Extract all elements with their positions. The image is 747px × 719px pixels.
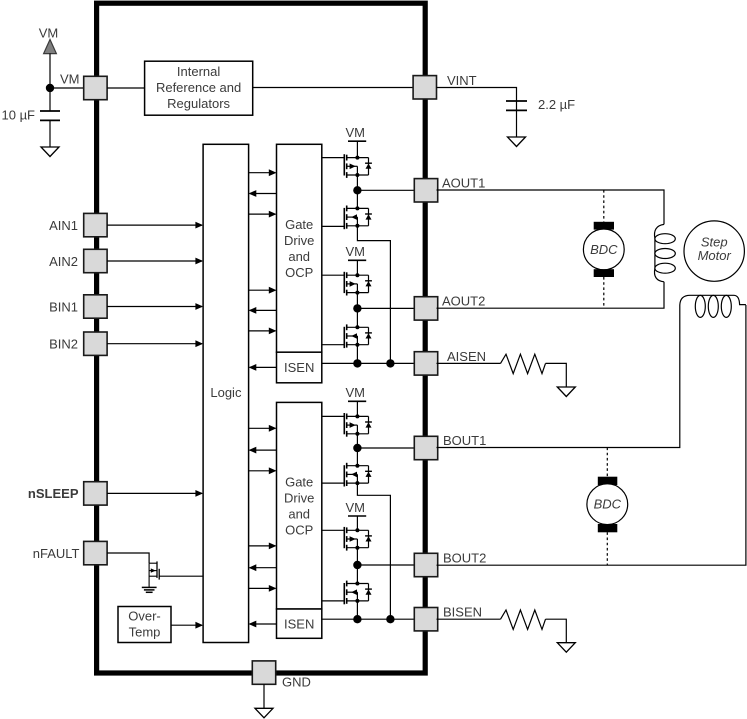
svg-text:Internal: Internal xyxy=(177,64,220,79)
node VM junction dot xyxy=(46,84,54,92)
svg-text:AIN1: AIN1 xyxy=(49,218,78,233)
power rail VM B1 bar xyxy=(348,400,366,402)
wire VM supply vertical xyxy=(49,54,51,111)
svg-text:VM: VM xyxy=(345,385,365,400)
svg-text:BIN2: BIN2 xyxy=(49,337,78,352)
transistor Q2 low-side A1 xyxy=(344,206,372,230)
svg-text:Drive: Drive xyxy=(284,233,314,248)
wire BDC B dashed top xyxy=(606,448,608,477)
wire AOUT1 node to pin xyxy=(357,189,414,191)
svg-text:VM: VM xyxy=(39,26,59,41)
wire BOUT1 to winding B xyxy=(437,305,680,448)
motor BDC A xyxy=(583,222,624,277)
wire ISENA to Logic arrow xyxy=(249,364,277,371)
wire AOUT1 node to Q2 drain xyxy=(356,190,358,208)
wire Q7 source to BOUT2 node xyxy=(356,548,358,565)
svg-text:Over-: Over- xyxy=(128,608,161,623)
wire BIN2 to Logic xyxy=(107,340,203,347)
resistor R1 AISEN sense xyxy=(501,354,546,373)
pin BOUT2 xyxy=(414,553,437,576)
wire Over-Temp to Logic xyxy=(171,622,203,629)
node BISEN dot 1 xyxy=(353,615,361,623)
pin AISEN xyxy=(414,352,437,375)
resistor R2 BISEN sense xyxy=(501,610,546,629)
wire GateDriveB to Q7 gate xyxy=(322,529,345,531)
inductor L2 step motor winding B xyxy=(680,295,746,317)
wire regulator box to VINT pin xyxy=(253,87,415,89)
pin GND xyxy=(252,661,275,684)
block Gate Drive and OCP B xyxy=(277,402,322,609)
svg-text:BISEN: BISEN xyxy=(443,605,482,620)
pin AOUT1 xyxy=(414,179,437,202)
svg-text:BDC: BDC xyxy=(594,497,622,512)
motor Step Motor xyxy=(684,221,744,281)
svg-text:10 µF: 10 µF xyxy=(2,108,36,123)
wire Logic to GateDriveA arrow 3 xyxy=(249,211,277,218)
block Logic xyxy=(203,144,249,642)
wire GateDriveA to Logic arrow 5 xyxy=(249,307,277,314)
wire AOUT2 to motor loop xyxy=(437,282,665,308)
svg-text:BOUT1: BOUT1 xyxy=(443,433,486,448)
wire AOUT2 node to pin xyxy=(357,307,414,309)
pin BIN1 xyxy=(84,295,107,318)
wire BOUT2 node to Q8 drain xyxy=(356,565,358,584)
svg-text:OCP: OCP xyxy=(285,522,313,537)
pin AIN2 xyxy=(84,249,107,272)
svg-text:AOUT2: AOUT2 xyxy=(442,293,485,308)
wire BIN1 to Logic xyxy=(107,303,203,310)
pin VM xyxy=(84,76,107,99)
pin nFAULT xyxy=(84,541,107,564)
ground below GND pin xyxy=(255,708,273,718)
wire AIN1 to Logic xyxy=(107,222,203,229)
svg-text:VM: VM xyxy=(345,244,365,259)
svg-text:AOUT1: AOUT1 xyxy=(442,175,485,190)
wire BDC B dashed bottom xyxy=(606,532,608,565)
wire VM A1 to Q1 drain xyxy=(356,141,358,157)
block ISEN B xyxy=(277,609,322,638)
svg-text:BIN1: BIN1 xyxy=(49,300,78,315)
wire resistor RB feed xyxy=(437,618,501,620)
svg-text:VM: VM xyxy=(345,125,365,140)
wire GateDriveA to Logic arrow 2 xyxy=(249,190,277,197)
pin AIN1 xyxy=(84,213,107,236)
device outline (thick package box) xyxy=(97,3,426,673)
wire Q1 source to AOUT1 node xyxy=(356,175,358,190)
node AISEN dot 1 xyxy=(353,359,361,367)
svg-text:VM: VM xyxy=(60,72,80,87)
wire R1 to ground xyxy=(546,363,567,387)
pin BOUT1 xyxy=(414,436,437,459)
wire GateDriveB to Q6 gate xyxy=(322,482,345,484)
block Internal Reference and Regulators xyxy=(145,61,253,115)
wire BOUT1 node to pin xyxy=(357,447,414,449)
wire GND pin down xyxy=(263,684,265,708)
svg-text:nFAULT: nFAULT xyxy=(33,546,80,561)
wire Logic to GateDriveA arrow 1 xyxy=(249,169,277,176)
wire Logic to GateDriveB arrow 3 xyxy=(249,467,277,474)
wire nFAULT to open-drain FET xyxy=(107,553,149,563)
ground earth symbol under Q9 xyxy=(142,587,157,592)
wire Logic to GateDriveB arrow 1 xyxy=(249,425,277,432)
wire VM pin to regulator box xyxy=(107,87,145,89)
node AOUT2 dot xyxy=(353,304,361,312)
capacitor C2 2.2uF xyxy=(506,101,527,137)
inductor L1 step motor winding A xyxy=(654,224,675,281)
wire BDC A dashed top xyxy=(603,190,605,222)
node BOUT1 dot xyxy=(353,444,361,452)
wire Logic to GateDriveB arrow 6 xyxy=(249,585,277,592)
power rail VM A2 bar xyxy=(348,259,366,261)
wire GateDriveA to Q1 gate xyxy=(322,157,345,159)
wire Q5 source to BOUT1 node xyxy=(356,434,358,448)
wire resistor RA feed xyxy=(437,362,501,364)
node AISEN dot 2 xyxy=(386,359,394,367)
wire BOUT1 node to Q6 drain xyxy=(356,448,358,466)
wire VM B2 to Q7 drain xyxy=(356,516,358,530)
svg-text:Reference and: Reference and xyxy=(156,80,241,95)
pin AOUT2 xyxy=(414,297,437,320)
block ISEN A xyxy=(277,352,322,383)
svg-text:and: and xyxy=(288,249,310,264)
wire Q6 source to BISEN rail xyxy=(357,483,390,619)
svg-text:Gate: Gate xyxy=(285,217,313,232)
wire VM B1 to Q5 drain xyxy=(356,401,358,416)
ground below C2 xyxy=(508,137,526,147)
ground below C1 xyxy=(41,147,59,157)
svg-text:ISEN: ISEN xyxy=(284,616,314,631)
wire GateDriveB to Logic arrow 2 xyxy=(249,447,277,454)
wire Logic to GateDriveA arrow 6 xyxy=(249,328,277,335)
ground below R1 xyxy=(557,387,575,397)
node AOUT1 dot xyxy=(353,186,361,194)
wire Q4 source to AISEN rail xyxy=(356,345,358,364)
node BOUT2 dot xyxy=(353,561,361,569)
capacitor C1 10uF plates xyxy=(40,111,60,147)
pin nSLEEP xyxy=(84,482,107,505)
wire ISENB to Logic arrow xyxy=(249,621,277,628)
svg-text:Motor: Motor xyxy=(698,248,732,263)
svg-text:BOUT2: BOUT2 xyxy=(443,551,486,566)
wire AIN2 to Logic xyxy=(107,258,203,265)
wire Q3 source to AOUT2 node xyxy=(356,293,358,309)
transistor Q7 high-side B2 xyxy=(344,527,372,551)
wire BOUT2 node to pin xyxy=(357,564,414,566)
ground below R2 xyxy=(557,643,575,653)
svg-text:nSLEEP: nSLEEP xyxy=(28,486,79,501)
node BISEN dot 2 xyxy=(386,615,394,623)
wire nSLEEP to Logic xyxy=(107,490,203,497)
svg-text:2.2 µF: 2.2 µF xyxy=(538,97,575,112)
block Over-Temp xyxy=(118,607,171,643)
svg-text:Gate: Gate xyxy=(285,474,313,489)
svg-text:Logic: Logic xyxy=(210,385,242,400)
wire GateDriveA to Q2 gate xyxy=(322,225,345,227)
transistor Q6 low-side B1 xyxy=(344,463,372,487)
wire GateDriveA to Q4 gate xyxy=(322,344,345,346)
transistor Q8 low-side B2 xyxy=(344,581,372,605)
transistor Q5 high-side B1 xyxy=(344,413,372,437)
svg-text:Regulators: Regulators xyxy=(167,96,230,111)
pin BISEN xyxy=(414,608,437,631)
block Gate Drive and OCP A xyxy=(277,144,322,352)
svg-text:AISEN: AISEN xyxy=(447,349,486,364)
wire VINT to C2 xyxy=(437,88,517,112)
wire GateDriveA to Q3 gate xyxy=(322,274,345,276)
pin VINT xyxy=(413,76,436,99)
wire Q8 source to BISEN rail xyxy=(356,601,358,619)
svg-text:AIN2: AIN2 xyxy=(49,254,78,269)
svg-text:GND: GND xyxy=(282,675,311,690)
wire GateDriveB to Logic arrow 5 xyxy=(249,564,277,571)
wire Logic to GateDriveA arrow 4 xyxy=(249,287,277,294)
wire Logic to GateDriveB arrow 4 xyxy=(249,543,277,550)
svg-text:Temp: Temp xyxy=(129,624,161,639)
svg-text:VINT: VINT xyxy=(447,73,477,88)
pin BIN2 xyxy=(84,332,107,355)
transistor Q9 open-drain fault FET xyxy=(149,561,159,587)
svg-text:Drive: Drive xyxy=(284,490,314,505)
svg-text:BDC: BDC xyxy=(590,242,618,257)
svg-text:OCP: OCP xyxy=(285,265,313,280)
power rail VM A1 bar xyxy=(348,140,366,142)
wire R2 to ground xyxy=(546,619,567,643)
VM supply arrow xyxy=(44,40,57,54)
wire VM to pin xyxy=(50,87,85,89)
wire ISENB to BISEN pin xyxy=(322,618,415,620)
wire AOUT2 node to Q4 drain xyxy=(356,308,358,327)
transistor Q4 low-side A2 xyxy=(344,324,372,348)
motor BDC B xyxy=(587,477,628,533)
svg-text:VM: VM xyxy=(345,500,365,515)
wire ISENA to AISEN pin xyxy=(322,362,415,364)
wire Logic to Q9 gate xyxy=(159,575,203,577)
wire GateDriveB to Q5 gate xyxy=(322,415,345,417)
svg-text:ISEN: ISEN xyxy=(284,360,314,375)
svg-text:and: and xyxy=(288,506,310,521)
wire VM A2 to Q3 drain xyxy=(356,260,358,275)
power rail VM B2 bar xyxy=(348,515,366,517)
wire GateDriveB to Q8 gate xyxy=(322,600,345,602)
transistor Q3 high-side A2 xyxy=(344,272,372,296)
transistor Q1 high-side A1 xyxy=(344,154,372,178)
wire BOUT2 to winding B xyxy=(437,305,746,565)
wire BDC A dashed bottom xyxy=(603,277,605,308)
wire Q2 source to AISEN rail xyxy=(357,226,390,364)
wire AOUT1 to motor loop xyxy=(437,190,665,224)
